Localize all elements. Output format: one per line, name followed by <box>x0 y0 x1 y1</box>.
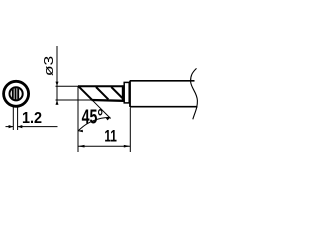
11 arrow right <box>124 145 131 148</box>
blade bottom edge <box>92 99 124 102</box>
1.2 arrow right <box>18 125 23 128</box>
svg-text:11: 11 <box>104 128 117 146</box>
45deg arc arrow left <box>78 130 83 133</box>
11 dimension line <box>78 145 130 147</box>
45deg vertical extension <box>77 86 79 152</box>
barrel left edge <box>129 81 131 107</box>
dia3 extension bottom <box>56 99 93 101</box>
dia3 extension top <box>56 85 79 87</box>
blade top edge <box>78 85 124 87</box>
45deg arc arrow right <box>106 117 111 120</box>
11 arrow left <box>78 145 85 148</box>
blade right end bar <box>122 85 124 101</box>
dia3 arrow bottom <box>56 100 59 105</box>
blade cutting edge 45deg <box>78 86 92 100</box>
svg-text:45°: 45° <box>82 105 104 128</box>
break squiggle <box>191 68 198 119</box>
blade hatch 2 <box>111 87 122 98</box>
tip end view: inner circle <box>10 87 23 100</box>
45deg thin ray <box>92 100 110 118</box>
dia3 arrow top <box>56 82 59 87</box>
dia3 dimension line <box>56 46 58 105</box>
1.2 dimension line <box>6 126 14 128</box>
1.2 extension line left <box>12 107 14 130</box>
svg-text:1.2: 1.2 <box>22 109 42 127</box>
1.2 extension line right <box>17 107 19 130</box>
1.2 arrow left <box>9 125 14 128</box>
45deg arc <box>78 117 110 131</box>
barrel top edge <box>130 80 195 82</box>
11 extension right <box>129 108 131 152</box>
barrel bottom edge <box>130 106 198 108</box>
collar <box>124 82 129 103</box>
blade hatch 1 <box>96 87 108 99</box>
svg-text:ø3: ø3 <box>42 56 57 76</box>
tip end view: outer ring <box>4 81 29 106</box>
